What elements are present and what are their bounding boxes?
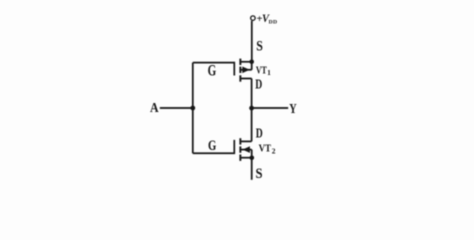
svg-text:2: 2	[272, 147, 276, 156]
svg-text:DD: DD	[269, 20, 278, 26]
VT2 channel dash middle	[239, 146, 241, 152]
VT2 channel dash bottom	[239, 155, 241, 161]
label VT1	[256, 65, 271, 77]
svg-text:S: S	[256, 166, 263, 182]
VT2 substrate-source connector	[251, 150, 253, 158]
svg-text:1: 1	[267, 68, 271, 77]
svg-text:D: D	[256, 126, 263, 141]
node: VT1 source-substrate dot	[249, 60, 254, 65]
VDD label +VDD	[257, 13, 278, 26]
node: output junction dot	[249, 106, 254, 111]
VT2 drain lead	[241, 140, 252, 142]
label VT2	[259, 144, 276, 156]
VT2 gate plate	[233, 140, 235, 154]
VT2 substrate lead	[241, 149, 252, 151]
wire VT2 source down	[251, 158, 253, 180]
svg-text:G: G	[208, 62, 217, 79]
svg-text:S: S	[256, 38, 263, 54]
VT2 substrate arrow (points left, NMOS)	[243, 146, 250, 153]
VT1 substrate lead	[241, 69, 252, 71]
VT2 channel dash top	[239, 138, 241, 144]
wire left gate bus	[192, 63, 194, 154]
node: VT2 source-substrate dot	[250, 156, 255, 161]
transistor VT1 (PMOS)	[234, 59, 251, 82]
svg-text:G: G	[208, 138, 217, 154]
VT1 drain lead	[241, 78, 252, 80]
transistor VT2 (NMOS)	[234, 138, 251, 161]
VT1 channel dash middle	[239, 67, 241, 73]
VDD terminal circle	[251, 16, 256, 21]
wire output node down to VT2 drain	[251, 108, 253, 141]
VT2 source lead	[241, 157, 252, 159]
svg-text:A: A	[150, 100, 159, 115]
wire VDD to VT1 source	[251, 21, 253, 62]
svg-text:VT: VT	[256, 65, 267, 76]
svg-text:D: D	[255, 78, 262, 93]
wire input A	[160, 107, 193, 109]
VT1 source lead	[241, 61, 252, 63]
VT1 channel dash bottom	[239, 75, 241, 81]
wire VT1 drain down to output node	[251, 79, 253, 109]
svg-text:VT: VT	[259, 144, 271, 155]
VT1 substrate arrow (points right, PMOS)	[242, 67, 249, 74]
VT1 gate plate	[233, 62, 235, 76]
VT1 substrate-source connector	[251, 62, 253, 70]
VT1 channel dash top	[239, 59, 241, 65]
wire output Y	[252, 107, 289, 109]
wire VT2 gate lead	[193, 152, 235, 154]
wire VT1 gate lead	[193, 62, 235, 64]
svg-text:Y: Y	[289, 102, 296, 117]
node: input junction dot	[190, 106, 195, 111]
